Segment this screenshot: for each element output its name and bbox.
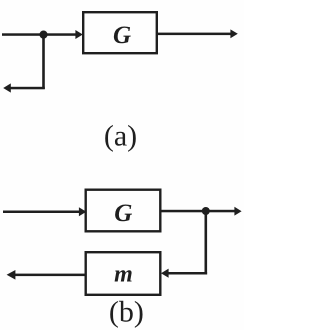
arrowhead into block G (b) bbox=[79, 207, 86, 216]
wire: feedback vertical segment (b) bbox=[205, 211, 208, 275]
arrowhead into block G (a) bbox=[75, 30, 82, 39]
svg-text:(b): (b) bbox=[109, 296, 144, 329]
svg-text:m: m bbox=[114, 262, 133, 288]
wire: output line of figure (b) bbox=[161, 210, 236, 213]
arrowhead: output arrow (b) bbox=[234, 207, 241, 216]
junction dot (a) bbox=[39, 30, 47, 38]
svg-text:G: G bbox=[114, 200, 132, 227]
block G (b) bbox=[86, 190, 161, 232]
block m (b) bbox=[86, 252, 161, 295]
junction dot (b) bbox=[202, 207, 210, 215]
arrowhead into block m (b) bbox=[161, 269, 169, 278]
wire: feedback horizontal segment (a) bbox=[10, 87, 45, 90]
wire: input line of figure (a) bbox=[2, 33, 76, 36]
svg-text:G: G bbox=[113, 22, 131, 49]
wire: input line of figure (b) bbox=[3, 211, 80, 214]
arrowhead: left output arrow from m (b) bbox=[7, 270, 16, 280]
wire: feedback vertical segment (a) bbox=[42, 35, 45, 90]
arrowhead: output arrow (a) bbox=[230, 29, 237, 38]
wire: output line from block m (b) bbox=[14, 274, 85, 277]
block G (a) bbox=[83, 12, 157, 53]
wire: feedback horizontal segment into block m (b) bbox=[168, 272, 207, 275]
svg-text:(a): (a) bbox=[104, 119, 137, 152]
wire: output line of figure (a) bbox=[157, 33, 232, 36]
arrowhead: feedback arrow pointing left (a) bbox=[3, 83, 11, 92]
